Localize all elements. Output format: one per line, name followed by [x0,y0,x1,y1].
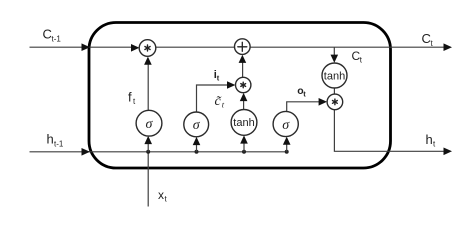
svg-text:f: f [128,90,132,105]
tanh unit U5 (cell output tanh) [322,63,347,88]
svg-text:t: t [303,90,306,99]
wire C(t-1) input line [30,46,137,48]
svg-text:t: t [222,100,225,110]
svg-text:tanh: tanh [324,70,345,82]
svg-text:x: x [158,188,164,202]
svg-text:t-1: t-1 [52,35,62,44]
wire up into sigma3 [286,144,288,152]
svg-text:t: t [360,56,363,65]
svg-text:t: t [133,97,136,106]
svg-text:t: t [217,74,220,83]
svg-text:σ: σ [282,118,290,133]
svg-text:t: t [433,140,436,149]
svg-text:σ: σ [146,117,154,132]
sigma unit U6 (forget gate) [136,110,162,136]
wire f(t): sigma1 up to forget multiplier [147,65,149,111]
arrowhead into cell on h line [82,148,91,156]
wire from forget-multiplier to adder [156,46,235,48]
wire up into sigma1 [147,144,149,152]
wire up into sigma2 [196,145,198,152]
multiplier U3 (input gate *) [236,77,251,92]
arrowhead C(t) output [444,43,453,51]
svg-text:c̃: c̃ [215,94,222,109]
multiplier U1 (forget gate *) [139,40,156,57]
sigma unit U7 (input gate) [184,112,209,137]
wire tanh to output multiplier [333,88,335,94]
svg-text:σ: σ [193,118,201,133]
wire o(t): sigma3 up then right into output multiplier [287,102,323,112]
LSTM cell body (rounded rectangle) [89,23,391,169]
wire tanh1 up into input multiplier [243,101,245,110]
adder U2 (+) [235,39,251,55]
junction dot B [195,150,199,154]
junction dot C [242,150,246,154]
arrowhead down into tanh [331,55,339,63]
junction dot D [285,150,289,154]
wire up into tanh1 [243,143,245,152]
svg-text:h: h [47,132,54,147]
arrowhead h(t) output [444,148,453,156]
arrowhead into cell on C line [82,43,91,51]
svg-text:tanh: tanh [233,117,254,129]
svg-text:C: C [43,27,52,42]
wire h(t-1) input line [30,151,288,153]
wire x(t) input [147,152,149,207]
wire i(t): sigma2 up then right into input multiplier [197,85,232,112]
svg-text:C: C [422,31,431,46]
svg-text:h: h [426,132,433,147]
svg-text:t: t [165,195,168,204]
wire h(t) output: down from multiplier then right [334,110,449,152]
wire C(t) output line [250,46,449,48]
junction dot A [146,150,150,154]
wire input multiplier up into adder [242,63,244,78]
tanh unit U8 (candidate) [231,110,257,136]
svg-text:t-1: t-1 [54,140,64,149]
multiplier U4 (output gate *) [327,94,343,110]
sigma unit U9 (output gate) [273,111,298,136]
wire branch from C line down to tanh unit [333,47,335,56]
arrowhead into multiplier U1 [131,44,139,52]
